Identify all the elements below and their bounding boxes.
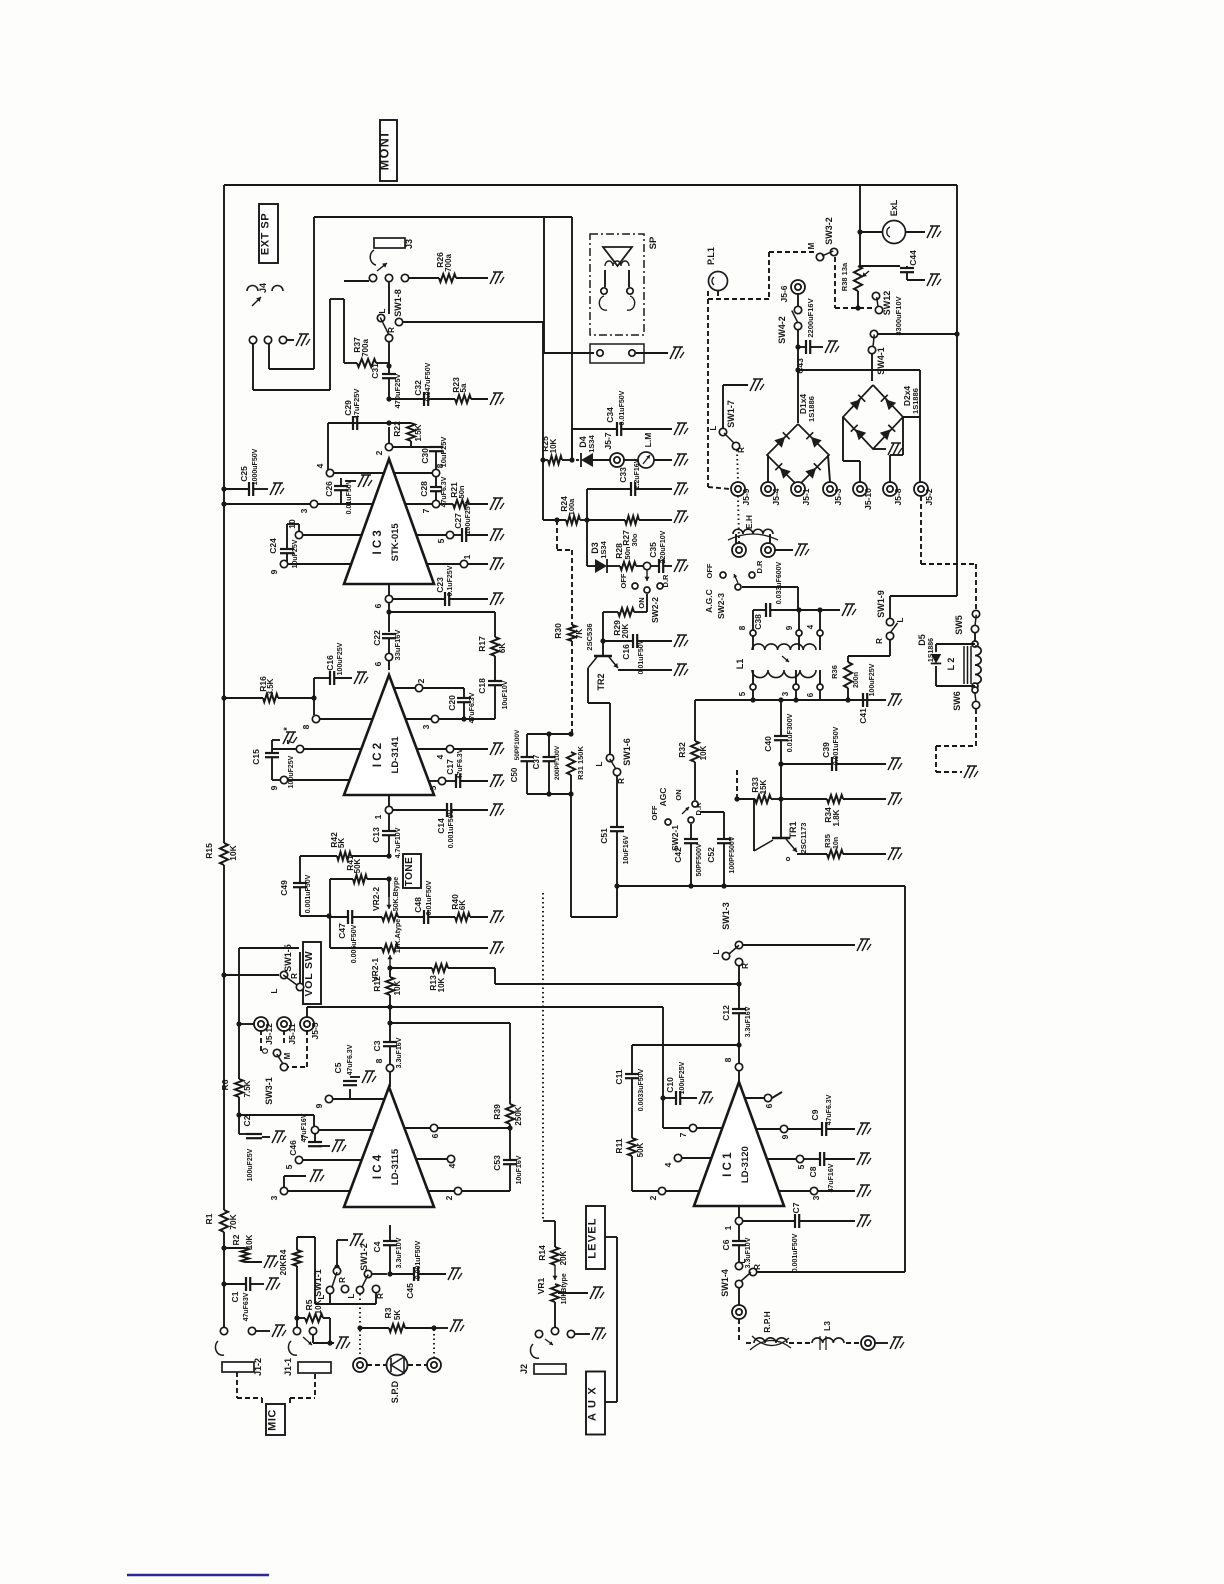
- svg-text:3: 3: [299, 508, 309, 513]
- dotted wire SW1-7 to J5-9: [737, 450, 738, 482]
- svg-text:M: M: [807, 242, 816, 249]
- ground pin3 IC1: [857, 1185, 863, 1197]
- resistor R16: [221, 695, 226, 700]
- pin 7 IC4: [311, 1126, 318, 1133]
- dash-dot R30 chain: [556, 520, 558, 550]
- svg-text:SW1-2: SW1-2: [359, 1243, 369, 1271]
- svg-text:C5: C5: [333, 1062, 343, 1073]
- capacitor C27: [454, 534, 462, 536]
- svg-text:C41: C41: [858, 708, 868, 724]
- speaker terminals: [604, 270, 606, 287]
- jack J5-10: [853, 482, 867, 496]
- resistor R24: [566, 516, 580, 524]
- svg-text:C16: C16: [325, 655, 335, 671]
- dashed wire J5-2 down: [920, 496, 922, 564]
- ground lower right dashed: [964, 766, 970, 778]
- svg-text:0.01uF50V: 0.01uF50V: [619, 390, 626, 425]
- ground speaker connector: [636, 352, 668, 354]
- svg-text:AGC: AGC: [658, 788, 668, 807]
- switch SW2-2: [646, 570, 648, 581]
- pin 2 IC2: [415, 684, 422, 691]
- svg-text:J1-2: J1-2: [253, 1358, 263, 1376]
- speaker cone: [603, 247, 632, 266]
- capacitor C5: [349, 1089, 351, 1099]
- terminal on D3 row: [643, 562, 650, 569]
- wire C29 row: [386, 420, 391, 425]
- svg-text:I C 1: I C 1: [722, 1152, 734, 1177]
- dotted J5-9 to EH: [738, 496, 739, 543]
- svg-text:50K: 50K: [636, 1142, 645, 1157]
- svg-text:O: O: [261, 1048, 270, 1054]
- svg-text:1: 1: [723, 1225, 733, 1230]
- svg-text:9: 9: [780, 1134, 790, 1139]
- potentiometer VR1: [554, 1265, 556, 1280]
- jack below SW1-4: [738, 1288, 740, 1305]
- wire left bus x=224 upper: [223, 185, 225, 843]
- svg-text:1000uF50V: 1000uF50V: [252, 448, 259, 485]
- svg-text:4.7uF10V: 4.7uF10V: [395, 827, 402, 858]
- svg-text:C25: C25: [239, 466, 249, 482]
- pin 3 IC1: [810, 1187, 817, 1194]
- svg-text:R36: R36: [830, 665, 839, 679]
- svg-text:700a: 700a: [444, 254, 453, 272]
- dotted DR control line: [542, 893, 544, 1221]
- ground after R23: [490, 393, 496, 405]
- lamp ExL: [859, 185, 861, 268]
- ground VR1: [590, 1287, 596, 1299]
- wire long y=984: [494, 968, 496, 984]
- svg-text:0.0033uF50V: 0.0033uF50V: [638, 1068, 645, 1111]
- svg-text:S.P.D: S.P.D: [390, 1380, 400, 1403]
- svg-text:*: *: [282, 727, 292, 731]
- svg-text:C24: C24: [268, 538, 278, 554]
- ground after C10: [699, 1092, 705, 1104]
- svg-text:3: 3: [269, 1195, 279, 1200]
- svg-text:3: 3: [421, 724, 431, 729]
- capacitor C44: [860, 265, 900, 267]
- svg-text:R14: R14: [537, 1245, 547, 1261]
- svg-text:L: L: [709, 425, 718, 430]
- ground C9 row: [857, 1123, 863, 1135]
- capacitor C33 row: [586, 489, 588, 520]
- svg-text:MIC: MIC: [267, 1409, 279, 1431]
- svg-text:R12: R12: [372, 976, 382, 992]
- wire L1 bottom row y=700: [695, 699, 869, 701]
- wire J3 contacts: [369, 274, 376, 281]
- svg-text:10uF10V: 10uF10V: [502, 680, 509, 709]
- capacitor C43: [798, 346, 806, 348]
- svg-text:100a: 100a: [567, 498, 576, 516]
- svg-text:L 2: L 2: [946, 658, 956, 671]
- ground after ExL: [927, 226, 933, 238]
- resistor R13: [392, 967, 432, 969]
- ground at D2x4: [873, 448, 886, 450]
- svg-text:R17: R17: [477, 636, 487, 652]
- wire D2x4 outputs: [842, 417, 844, 461]
- dashed to jack: [846, 1342, 861, 1344]
- pin 4 IC2: [446, 745, 453, 752]
- ground after C23: [490, 593, 496, 605]
- svg-text:SW3-2: SW3-2: [824, 217, 834, 245]
- svg-text:R: R: [338, 1277, 347, 1283]
- svg-text:10K: 10K: [437, 977, 446, 992]
- pin 9 IC4: [325, 1095, 332, 1102]
- ground C45: [448, 1268, 454, 1280]
- svg-text:C4: C4: [372, 1241, 382, 1252]
- svg-text:C26: C26: [324, 481, 334, 497]
- svg-text:OFF: OFF: [619, 573, 628, 588]
- label MONI (boxed): [380, 120, 397, 181]
- svg-text:LD-3141: LD-3141: [390, 736, 401, 774]
- capacitor C34 row: [571, 429, 573, 460]
- svg-text:C23: C23: [435, 577, 445, 593]
- resistor R42 row: [300, 855, 337, 857]
- pin 5 IC4: [295, 1156, 302, 1163]
- svg-text:J3: J3: [404, 239, 414, 249]
- transistor TR1 2SC1173: [780, 799, 782, 838]
- wire x=663 pin7 feed: [662, 1007, 664, 1128]
- resistor R33: [736, 770, 738, 799]
- wire SW1-8 common down: [388, 342, 390, 366]
- ground J1-1: [336, 1337, 342, 1349]
- svg-text:C6: C6: [721, 1239, 731, 1250]
- svg-text:3.3uF16V: 3.3uF16V: [745, 1006, 752, 1037]
- ground J2: [592, 1328, 598, 1340]
- svg-text:E.H: E.H: [744, 515, 754, 529]
- pin 4 IC4: [447, 1155, 454, 1162]
- jack J5-9: [731, 482, 745, 496]
- dashed MIC link right: [314, 1374, 316, 1398]
- resistor R25: [540, 457, 545, 462]
- ground R3: [450, 1320, 456, 1332]
- svg-text:SW2-3: SW2-3: [716, 593, 726, 619]
- svg-text:50n: 50n: [623, 546, 632, 559]
- svg-text:L: L: [378, 308, 387, 313]
- ground R27 row: [674, 511, 680, 523]
- svg-text:STK-015: STK-015: [390, 523, 401, 562]
- svg-text:R31 150K: R31 150K: [576, 746, 585, 780]
- svg-text:0.001uF50V: 0.001uF50V: [415, 1240, 422, 1279]
- wire y=1023 to R39: [390, 1022, 510, 1024]
- pin 3 IC2: [431, 715, 438, 722]
- svg-text:1S1886: 1S1886: [911, 388, 920, 414]
- svg-text:50PF500V: 50PF500V: [696, 843, 703, 876]
- ground after C16: [354, 672, 360, 684]
- svg-text:10uF25V: 10uF25V: [439, 437, 448, 468]
- capacitor C51: [616, 776, 618, 827]
- svg-text:100uF25V: 100uF25V: [679, 1061, 686, 1094]
- svg-text:1.5K: 1.5K: [414, 424, 423, 441]
- resistor R12: [387, 965, 392, 970]
- pin 5 IC2: [438, 777, 445, 784]
- wire top right rail y=370: [795, 367, 800, 372]
- capacitor C49: [299, 856, 301, 883]
- svg-text:C15: C15: [251, 749, 261, 765]
- svg-text:C48: C48: [413, 897, 423, 913]
- svg-text:C30: C30: [420, 448, 430, 464]
- pin 3 IC3 and wire: [221, 501, 226, 506]
- capacitor C45 row: [390, 1273, 414, 1275]
- svg-text:C38: C38: [753, 614, 763, 630]
- svg-text:1: 1: [373, 814, 383, 819]
- svg-text:50K.Btype: 50K.Btype: [393, 877, 400, 911]
- svg-text:4: 4: [447, 1163, 457, 1168]
- pin 6 IC3: [388, 584, 390, 595]
- pin 5 IC1: [796, 1155, 803, 1162]
- resistor R22: [407, 423, 415, 441]
- svg-text:ON: ON: [674, 789, 683, 800]
- ground C39 row: [888, 758, 894, 770]
- svg-text:C46: C46: [288, 1140, 298, 1156]
- svg-text:5K: 5K: [337, 838, 346, 848]
- pin 7 IC2: [296, 745, 303, 752]
- resistor R35: [827, 850, 843, 858]
- svg-text:OFF: OFF: [650, 805, 659, 820]
- ground after C2: [272, 1131, 278, 1143]
- dashed wire SW3-2: [769, 251, 816, 253]
- svg-text:J5-5: J5-5: [310, 1022, 320, 1039]
- diode bridge D2x4: [843, 385, 903, 449]
- resistor R27: [587, 519, 625, 521]
- wire y=1045: [632, 1044, 739, 1046]
- dashed MIC link left: [236, 1372, 238, 1398]
- capacitor C29: [352, 416, 354, 430]
- capacitor C24: [286, 524, 288, 549]
- capacitor C3: [389, 1023, 391, 1042]
- svg-text:C42: C42: [673, 847, 683, 863]
- label MIC (boxed): [266, 1404, 285, 1435]
- ground TR2 emitter: [674, 664, 680, 676]
- svg-text:C53: C53: [492, 1155, 502, 1171]
- svg-text:TONE: TONE: [404, 857, 415, 887]
- wire left bus x=224 middle: [223, 865, 225, 1210]
- svg-text:C43: C43: [795, 358, 805, 374]
- svg-text:L: L: [270, 988, 279, 993]
- wire SW1-1 top link: [297, 1236, 315, 1238]
- svg-text:R: R: [290, 973, 299, 979]
- ground J1-2: [272, 1325, 278, 1337]
- wire top bus y=185: [224, 184, 957, 186]
- svg-text:5: 5: [796, 1164, 806, 1169]
- svg-text:C39: C39: [821, 742, 831, 758]
- capacitor C42: [690, 824, 692, 839]
- capacitor C4: [389, 1225, 391, 1241]
- resistor R36: [844, 662, 852, 688]
- svg-text:7: 7: [678, 1132, 688, 1137]
- ground C1: [266, 1278, 272, 1290]
- svg-text:10K: 10K: [549, 438, 558, 453]
- svg-text:C47: C47: [337, 923, 347, 939]
- svg-text:C44: C44: [908, 250, 918, 266]
- svg-text:5K: 5K: [393, 1310, 402, 1320]
- svg-text:6: 6: [430, 1133, 440, 1138]
- jack J5-8: [883, 482, 897, 496]
- potentiometer VR2-1: [382, 944, 398, 952]
- svg-text:100uF25V: 100uF25V: [869, 663, 876, 696]
- svg-text:TR2: TR2: [596, 673, 606, 690]
- svg-text:SW6: SW6: [952, 691, 962, 711]
- pin 9 IC1: [780, 1125, 787, 1132]
- svg-text:L3: L3: [822, 1321, 832, 1331]
- svg-text:33uF16V: 33uF16V: [393, 630, 402, 661]
- label LEVEL (boxed): [586, 1206, 605, 1269]
- svg-text:Btype: Btype: [561, 1273, 568, 1293]
- svg-text:C40: C40: [763, 736, 773, 752]
- svg-text:20K: 20K: [279, 1260, 288, 1275]
- pin 1 IC1: [738, 1206, 740, 1217]
- dashed R.P.H chain: [738, 1319, 740, 1343]
- wire to R32: [694, 700, 696, 741]
- svg-text:C49: C49: [279, 880, 289, 896]
- svg-text:100PF500V: 100PF500V: [729, 836, 736, 873]
- svg-text:10K: 10K: [245, 1234, 254, 1249]
- svg-text:4: 4: [663, 1162, 673, 1167]
- svg-text:1S34: 1S34: [587, 434, 596, 452]
- jack SPD right: [408, 1364, 427, 1366]
- svg-text:I C 4: I C 4: [372, 1154, 384, 1179]
- svg-text:9: 9: [269, 569, 279, 574]
- svg-text:6: 6: [764, 1103, 774, 1108]
- svg-text:C37: C37: [532, 754, 541, 769]
- capacitor C7 row: [743, 1220, 795, 1222]
- svg-text:R: R: [741, 963, 750, 969]
- ground C38 row: [842, 604, 848, 616]
- svg-text:J5-9: J5-9: [741, 488, 751, 505]
- wire speaker feed x=544: [543, 217, 545, 353]
- wire x=330 to VR2-1 row: [329, 916, 331, 948]
- svg-text:30o: 30o: [630, 533, 639, 546]
- svg-text:8: 8: [738, 625, 747, 630]
- capacitor C39 row: [781, 763, 832, 765]
- jack J1-2: [220, 1327, 227, 1334]
- svg-text:L: L: [896, 617, 905, 622]
- capacitor C46: [314, 1134, 316, 1142]
- pin 9 IC3: [280, 560, 287, 567]
- svg-text:C32: C32: [413, 380, 423, 396]
- svg-text:L.M: L.M: [643, 433, 653, 448]
- pin 10 IC3: [295, 531, 302, 538]
- pin 2 IC1: [632, 1190, 658, 1192]
- svg-text:C22: C22: [372, 630, 382, 646]
- resistor R21: [440, 503, 453, 505]
- resistor R32: [691, 741, 699, 762]
- pilot lamp PL1: [709, 272, 728, 291]
- svg-text:I C 3: I C 3: [372, 530, 384, 554]
- svg-text:R32: R32: [677, 742, 687, 758]
- svg-text:5: 5: [428, 785, 438, 790]
- svg-text:R: R: [875, 638, 884, 644]
- capacitor C26: [340, 478, 342, 486]
- ground after L.M: [674, 454, 680, 466]
- capacitor C32: [389, 398, 424, 400]
- svg-text:5: 5: [284, 1164, 294, 1169]
- svg-text:R5: R5: [304, 1299, 314, 1310]
- jack J5-11: [277, 1017, 291, 1031]
- capacitor C41: [862, 693, 864, 707]
- resistor R15: [220, 843, 228, 865]
- svg-text:8: 8: [723, 1057, 733, 1062]
- svg-text:7K: 7K: [575, 629, 584, 639]
- resistor R28: [607, 565, 620, 567]
- svg-text:SW4-2: SW4-2: [777, 316, 787, 344]
- svg-text:47uF6.3V: 47uF6.3V: [457, 748, 464, 779]
- wire SW1-9 R to R36: [889, 640, 891, 656]
- wire SW2-3 to C38 row: [742, 586, 798, 588]
- dashed SW1-2 to SPD: [359, 1294, 361, 1358]
- capacitor C23: [393, 598, 445, 600]
- svg-text:47uF25V: 47uF25V: [352, 389, 361, 420]
- svg-text:0.033uF600V: 0.033uF600V: [776, 561, 783, 604]
- svg-text:L: L: [712, 949, 721, 954]
- capacitor C52: [700, 811, 724, 813]
- resistor R14: [551, 1247, 559, 1265]
- svg-text:VR2-2: VR2-2: [371, 887, 381, 911]
- svg-text:3.5K: 3.5K: [266, 678, 275, 695]
- svg-text:SP: SP: [648, 236, 659, 249]
- svg-text:8: 8: [374, 1058, 384, 1063]
- svg-text:ON: ON: [637, 597, 646, 608]
- wire R6 to pin7 IC4: [239, 1114, 314, 1116]
- svg-text:SW1-3: SW1-3: [721, 902, 731, 930]
- capacitor C16b: [603, 640, 633, 642]
- svg-text:C10: C10: [665, 1077, 675, 1093]
- svg-text:R15: R15: [204, 843, 214, 859]
- svg-text:A U X: A U X: [587, 1386, 599, 1421]
- meter L.M: [623, 459, 638, 461]
- svg-text:R11: R11: [614, 1138, 624, 1153]
- pin 8 IC3: [432, 469, 439, 476]
- svg-text:C3: C3: [372, 1040, 382, 1051]
- ground C33 row: [674, 483, 680, 495]
- jack J3: [374, 238, 405, 248]
- ground SW1-3: [857, 939, 863, 951]
- jack J5-4: [761, 482, 775, 496]
- switch SW12: [872, 292, 879, 299]
- svg-text:2: 2: [648, 1195, 658, 1200]
- svg-text:SW1-8: SW1-8: [393, 289, 403, 317]
- svg-text:J1-1: J1-1: [283, 1358, 293, 1376]
- pin 5 IC3: [446, 531, 453, 538]
- svg-text:7: 7: [421, 508, 431, 513]
- potentiometer R38: [854, 266, 862, 291]
- transistor TR2 2SC536: [602, 641, 604, 656]
- pin 2 IC4: [462, 1190, 510, 1192]
- svg-text:3: 3: [811, 1195, 821, 1200]
- svg-text:10K: 10K: [393, 980, 402, 995]
- svg-text:0.001uF50V: 0.001uF50V: [448, 809, 455, 848]
- svg-text:SW3-1: SW3-1: [264, 1077, 274, 1105]
- svg-text:2: 2: [374, 450, 384, 455]
- capacitor C14: [393, 809, 447, 811]
- svg-text:D5: D5: [917, 634, 927, 646]
- svg-text:6: 6: [373, 603, 383, 608]
- switch SW1-5: [221, 972, 226, 977]
- inductor L2 with core: [974, 633, 976, 641]
- svg-text:9: 9: [314, 1103, 324, 1108]
- capacitor C30: [429, 446, 443, 448]
- wire to pin4: [327, 423, 329, 473]
- resistor R2: [221, 1245, 226, 1250]
- ground E.H: [795, 544, 801, 556]
- resistor R5: [294, 1315, 299, 1320]
- svg-text:C1: C1: [230, 1291, 240, 1302]
- svg-text:50K: 50K: [353, 858, 362, 873]
- jacks E.H: [732, 543, 746, 557]
- svg-text:1S1886: 1S1886: [928, 638, 935, 662]
- svg-text:C12: C12: [721, 1005, 731, 1021]
- svg-text:I C 2: I C 2: [372, 743, 384, 767]
- capacitor C2: [238, 1115, 240, 1134]
